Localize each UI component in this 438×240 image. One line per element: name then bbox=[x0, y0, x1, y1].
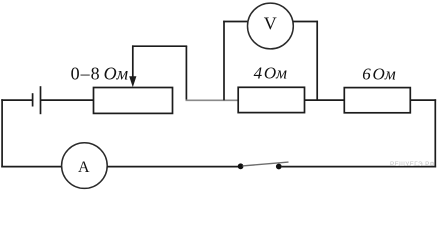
wire wiper loop vertical down bbox=[185, 46, 187, 100]
rheostat R1 body 0-8 Om bbox=[94, 88, 173, 114]
wire ammeter to switch bbox=[107, 166, 238, 168]
wire wiper loop horizontal bbox=[132, 45, 187, 47]
ammeter PA1 circle bbox=[62, 143, 108, 189]
wire battery to rheostat bbox=[41, 99, 94, 101]
wire voltmeter loop top right horizontal bbox=[293, 21, 318, 23]
svg-text:4 Ом: 4 Ом bbox=[254, 63, 288, 82]
svg-text:V: V bbox=[264, 13, 277, 33]
svg-text:А: А bbox=[78, 159, 90, 176]
resistor R3 body 6 Om bbox=[344, 88, 410, 113]
battery GB1 long plate (positive) bbox=[40, 86, 42, 114]
rheostat wiper arrowhead bbox=[129, 76, 136, 87]
resistor R2 body 4 Om bbox=[238, 87, 304, 112]
wire resistor R2 to resistor R3 bbox=[305, 99, 345, 101]
voltmeter PV1 circle bbox=[248, 3, 294, 49]
switch SA1 right contact dot bbox=[276, 164, 282, 170]
wire voltmeter loop right vertical bbox=[316, 21, 318, 101]
wire switch to bottom right corner bbox=[282, 166, 437, 168]
switch SA1 left contact dot bbox=[238, 163, 244, 169]
wire bottom left to ammeter bbox=[1, 166, 61, 168]
wire top left from corner to battery bbox=[1, 99, 32, 101]
svg-text:6 Ом: 6 Ом bbox=[362, 65, 396, 84]
switch SA1 lever (open) bbox=[243, 162, 289, 166]
wire resistor R3 to right corner bbox=[410, 99, 436, 101]
wire right vertical bbox=[434, 99, 436, 167]
wire voltmeter loop left vertical bbox=[223, 21, 225, 101]
battery GB1 short plate (negative) bbox=[32, 93, 34, 106]
svg-text:РЕШУЕГЭ.РФ: РЕШУЕГЭ.РФ bbox=[390, 161, 435, 168]
wire left vertical bbox=[1, 99, 3, 167]
wire (gray) wiper junction to resistor R2 bbox=[186, 99, 239, 101]
wire voltmeter loop top left horizontal bbox=[223, 21, 248, 23]
svg-text:0–8Ом: 0–8Ом bbox=[71, 64, 129, 84]
rheostat wiper arrow shaft bbox=[132, 45, 134, 78]
